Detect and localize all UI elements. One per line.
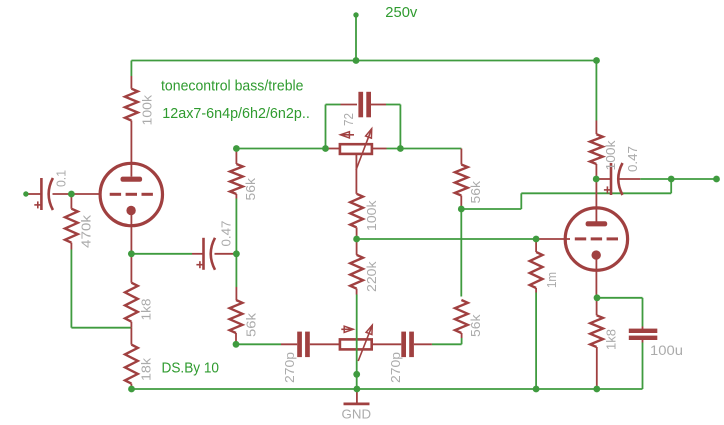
- svg-text:470k: 470k: [80, 214, 94, 248]
- svg-text:100k: 100k: [140, 94, 154, 125]
- svg-text:72: 72: [342, 113, 356, 126]
- svg-text:12ax7-6n4p/6h2/6n2p..: 12ax7-6n4p/6h2/6n2p..: [162, 106, 309, 122]
- svg-text:1k8: 1k8: [605, 329, 619, 350]
- svg-text:100k: 100k: [604, 140, 618, 171]
- svg-text:250v: 250v: [385, 4, 417, 21]
- svg-text:1k8: 1k8: [140, 298, 154, 320]
- svg-text:0.47: 0.47: [626, 146, 640, 172]
- svg-text:DS.By 10: DS.By 10: [162, 361, 220, 377]
- svg-text:56k: 56k: [469, 180, 483, 203]
- svg-text:220k: 220k: [365, 261, 379, 292]
- svg-text:270p: 270p: [283, 352, 297, 383]
- svg-text:100k: 100k: [365, 200, 379, 231]
- svg-text:0.47: 0.47: [220, 220, 234, 246]
- svg-text:56k: 56k: [245, 312, 259, 337]
- svg-text:56k: 56k: [244, 177, 258, 200]
- svg-text:270p: 270p: [389, 352, 403, 383]
- svg-text:tonecontrol bass/treble: tonecontrol bass/treble: [161, 79, 304, 95]
- svg-text:100u: 100u: [650, 343, 683, 358]
- svg-text:1m: 1m: [545, 272, 559, 288]
- svg-text:0.1: 0.1: [54, 170, 68, 187]
- svg-text:56k: 56k: [469, 314, 483, 337]
- svg-text:18k: 18k: [140, 357, 154, 381]
- svg-text:GND: GND: [342, 406, 372, 421]
